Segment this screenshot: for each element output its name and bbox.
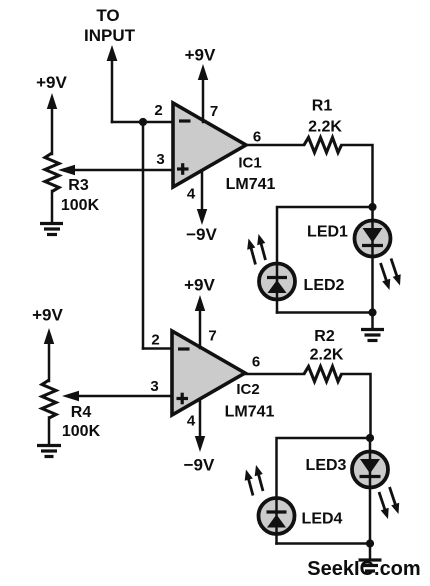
svg-text:100K: 100K <box>62 423 101 440</box>
node TO INPUT label <box>84 6 136 45</box>
svg-text:LED3: LED3 <box>306 457 347 474</box>
svg-text:INPUT: INPUT <box>84 26 136 45</box>
ground stage2 LEDs <box>359 560 382 571</box>
svg-text:R1: R1 <box>312 98 333 115</box>
wire pin3 IC2 / R4 wiper arrow <box>62 391 172 401</box>
svg-text:2: 2 <box>151 332 159 349</box>
svg-text:−9V: −9V <box>186 225 217 244</box>
svg-text:LED4: LED4 <box>302 511 343 528</box>
svg-text:R3: R3 <box>68 177 89 194</box>
pin - IC2 <box>178 347 190 350</box>
wire R2 to node B <box>342 374 371 438</box>
svg-text:2.2K: 2.2K <box>310 347 344 364</box>
potentiometer R4 <box>42 380 56 418</box>
wire pin3 IC1 / R3 wiper arrow <box>58 165 173 175</box>
svg-text:+9V: +9V <box>36 73 67 92</box>
svg-text:IC1: IC1 <box>238 155 261 172</box>
wire node B to LED4 branch <box>277 438 371 544</box>
wire R3 to ground <box>51 191 54 223</box>
svg-text:3: 3 <box>150 378 158 395</box>
pin - IC1 <box>179 119 191 122</box>
resistor R1 <box>304 138 342 153</box>
svg-text:R4: R4 <box>71 404 92 421</box>
LED4 emission arrows <box>245 465 263 496</box>
wire node A to LED2 branch <box>277 207 373 313</box>
wire junction to ground stage1 <box>371 313 374 330</box>
ground R3 <box>40 224 63 235</box>
power -9V arrow pin4 IC1 <box>197 171 207 225</box>
node junction LED bottom stage1 <box>368 308 376 316</box>
svg-text:TO: TO <box>96 6 119 25</box>
LED2 emission arrows <box>247 234 265 265</box>
wire input bus down to IC2 <box>142 122 145 349</box>
power -9V arrow pin4 IC2 <box>195 399 205 452</box>
LED1 emission arrows <box>381 259 401 291</box>
svg-text:+9V: +9V <box>185 46 216 65</box>
wire junction to ground stage2 <box>369 544 372 560</box>
ground stage1 LEDs <box>361 330 384 341</box>
svg-text:LED1: LED1 <box>307 224 348 241</box>
LED LED1 <box>355 221 391 257</box>
op-amp IC2 <box>172 331 245 415</box>
wire input to pin2 IC1 <box>112 121 173 124</box>
svg-text:−9V: −9V <box>184 456 215 475</box>
svg-text:3: 3 <box>156 151 164 168</box>
svg-text:LED2: LED2 <box>304 277 345 294</box>
potentiometer R3 <box>45 153 59 192</box>
svg-text:4: 4 <box>187 186 196 203</box>
svg-text:R2: R2 <box>314 328 335 345</box>
wire LED1 branch <box>371 207 374 313</box>
power +9V arrow pin7 IC2 <box>195 295 205 348</box>
svg-text:+9V: +9V <box>184 276 215 295</box>
svg-text:2.2K: 2.2K <box>308 119 342 136</box>
wire LED3 branch <box>369 438 372 544</box>
LED LED3 <box>352 452 388 488</box>
node junction LED bottom stage2 <box>366 539 374 547</box>
svg-text:LM741: LM741 <box>225 404 275 421</box>
node B junction <box>366 434 374 442</box>
svg-text:7: 7 <box>208 328 216 345</box>
pin + IC1 <box>177 163 189 175</box>
wire R1 to node A <box>342 145 373 207</box>
power +9V arrow R3 <box>47 93 57 154</box>
power +9V arrow pin7 IC1 <box>198 64 208 122</box>
node junction input bus <box>139 118 147 126</box>
wire IC2 output to R2 <box>245 373 304 376</box>
op-amp IC1 <box>173 103 246 187</box>
node A junction <box>368 203 376 211</box>
svg-text:+9V: +9V <box>32 306 63 325</box>
LED LED2 <box>259 264 295 300</box>
svg-text:LM741: LM741 <box>226 176 276 193</box>
svg-text:IC2: IC2 <box>236 381 259 398</box>
LED LED4 <box>259 498 295 534</box>
resistor R2 <box>304 367 342 382</box>
wire IC1 output to R1 <box>246 144 304 147</box>
wire LED4 bottom to junction <box>277 542 371 545</box>
input arrow (to input, up) <box>107 45 118 122</box>
svg-text:2: 2 <box>154 102 162 119</box>
svg-text:6: 6 <box>252 354 260 371</box>
wire R4 to ground <box>48 418 51 446</box>
wire LED2 bottom to junction <box>277 311 373 314</box>
svg-text:4: 4 <box>187 413 196 430</box>
power +9V arrow R4 <box>44 328 54 381</box>
wire input bus to pin2 IC2 <box>143 347 172 350</box>
LED3 emission arrows <box>379 487 399 519</box>
svg-text:100K: 100K <box>61 197 100 214</box>
ground R4 <box>37 446 61 457</box>
svg-text:6: 6 <box>253 129 261 146</box>
pin + IC2 <box>177 393 189 405</box>
svg-text:7: 7 <box>210 103 218 120</box>
